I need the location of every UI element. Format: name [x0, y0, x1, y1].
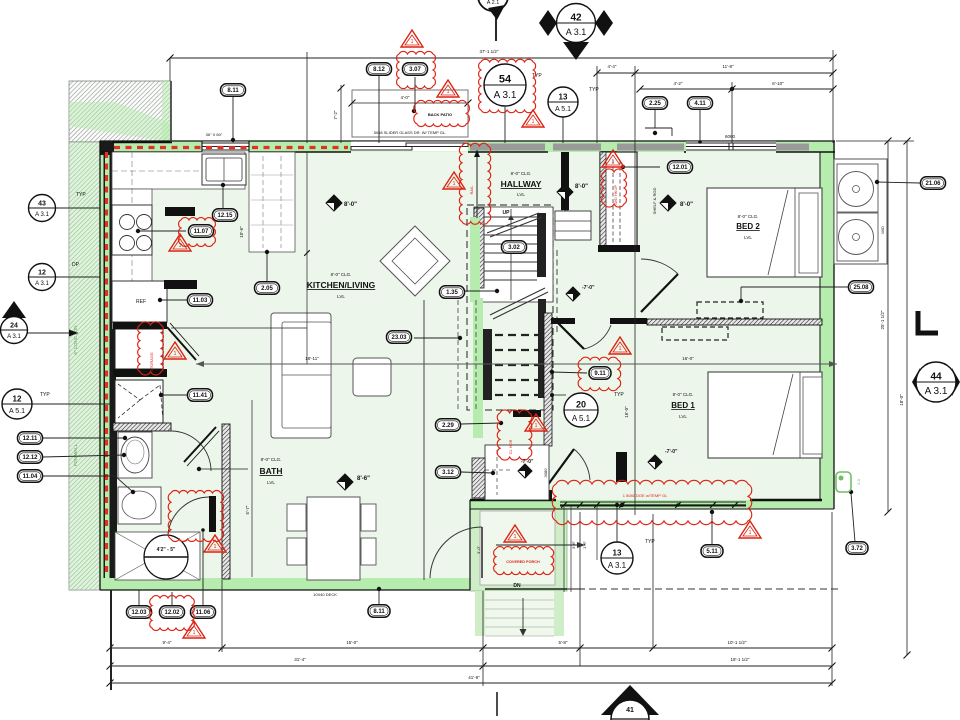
marker 43/A3.1	[55, 207, 100, 209]
svg-text:BED 1: BED 1	[671, 401, 695, 410]
svg-text:37'-1 1/2": 37'-1 1/2"	[480, 49, 499, 54]
svg-text:W/D: W/D	[880, 226, 885, 234]
pill 9.11	[552, 372, 587, 373]
svg-text:TYP: TYP	[645, 539, 655, 545]
lounge chair rotated	[380, 226, 450, 296]
svg-text:1: 1	[193, 630, 196, 636]
svg-text:3.12: 3.12	[442, 470, 454, 476]
svg-text:A 5.1: A 5.1	[9, 408, 25, 415]
svg-text:10X40 DECK: 10X40 DECK	[313, 592, 337, 597]
cloud storage	[138, 322, 164, 375]
bed2 door	[641, 274, 678, 312]
pill 8.12 / 3.07	[378, 76, 380, 143]
svg-text:A 2.1: A 2.1	[487, 0, 500, 6]
kitchen sink	[202, 154, 246, 185]
bottom-right exterior wall band	[470, 500, 834, 509]
svg-text:18'-1 1/2": 18'-1 1/2"	[731, 657, 750, 662]
svg-text:16'-0": 16'-0"	[624, 406, 629, 418]
svg-text:1: 1	[612, 159, 615, 165]
stairs lower dashed run	[470, 217, 480, 302]
svg-text:8.11: 8.11	[373, 609, 385, 615]
svg-text:11.06: 11.06	[196, 610, 211, 616]
corridor top wall	[551, 318, 575, 324]
svg-text:44: 44	[930, 372, 942, 383]
back patio slider	[351, 147, 412, 151]
kitchen window	[202, 142, 249, 144]
cloud covered porch	[494, 547, 554, 575]
svg-text:4'-4": 4'-4"	[608, 64, 617, 69]
revision delta at 533,120	[522, 110, 544, 127]
svg-text:8'-0" CLG.: 8'-0" CLG.	[261, 457, 282, 462]
cloud 12.02	[150, 596, 195, 631]
svg-text:6'-10": 6'-10"	[772, 81, 784, 86]
svg-text:8'-0" CLG.: 8'-0" CLG.	[673, 392, 694, 397]
DN dashed line	[567, 588, 838, 590]
pill 8.11 top	[232, 96, 234, 141]
cloud closet hdr	[497, 410, 532, 460]
pill 2.05	[266, 252, 268, 281]
svg-text:1: 1	[749, 530, 752, 536]
revision delta at 194,631	[183, 621, 205, 638]
porch stair sides	[475, 591, 485, 636]
bottom extension lines	[110, 590, 112, 690]
marker 42/A3.1 diamond top	[539, 10, 557, 36]
svg-text:BATH: BATH	[260, 466, 283, 476]
svg-text:1: 1	[453, 181, 456, 187]
svg-text:4'-2": 4'-2"	[674, 81, 683, 86]
pill 3.72	[851, 493, 855, 542]
pill 5.11	[711, 512, 713, 545]
porch door arc	[430, 527, 482, 578]
bath top wall	[113, 423, 171, 431]
svg-text:UP: UP	[503, 210, 511, 216]
cloud window south long	[552, 480, 752, 524]
svg-text:1: 1	[619, 346, 622, 352]
pantry counter strip	[249, 152, 295, 252]
svg-text:1: 1	[447, 89, 450, 95]
svg-text:13: 13	[559, 93, 568, 102]
top wall inner edge segments	[100, 151, 202, 153]
svg-text:2-0: 2-0	[856, 478, 861, 485]
svg-text:18'-11": 18'-11"	[305, 356, 319, 361]
cloud back patio	[414, 100, 470, 126]
svg-text:-7'-0": -7'-0"	[582, 285, 595, 291]
svg-text:8'-0" CLG.: 8'-0" CLG.	[738, 214, 759, 219]
svg-text:2.05: 2.05	[261, 286, 273, 292]
clg markers	[326, 195, 342, 211]
svg-text:A 3.1: A 3.1	[35, 212, 49, 218]
bottom dimension lines	[110, 647, 832, 649]
stairs upper run	[474, 207, 553, 302]
svg-text:TYP: TYP	[589, 87, 599, 93]
bed1 entry door	[557, 322, 584, 349]
svg-text:1: 1	[179, 243, 182, 249]
pill 3.12	[461, 472, 493, 473]
pill 12.15	[222, 185, 224, 209]
svg-text:20: 20	[576, 400, 586, 410]
dim chain in cloud	[560, 504, 746, 506]
pills bottom left	[138, 590, 140, 605]
range/stove	[112, 205, 152, 255]
svg-text:42: 42	[570, 13, 582, 24]
svg-text:RAIL: RAIL	[469, 185, 474, 195]
marker 44/A3.1 diamond right	[912, 368, 920, 396]
svg-text:STORAGE: STORAGE	[149, 352, 154, 372]
marker 12/A5.1	[30, 403, 112, 405]
svg-text:15'-0": 15'-0"	[346, 640, 358, 645]
svg-text:A 3.1: A 3.1	[925, 386, 948, 397]
svg-text:9.11: 9.11	[594, 371, 606, 377]
svg-text:13: 13	[613, 549, 622, 558]
toilet	[118, 432, 152, 478]
svg-text:31'-4": 31'-4"	[294, 657, 306, 662]
svg-text:8.12: 8.12	[373, 67, 385, 73]
pill 12.01	[623, 166, 660, 168]
svg-text:1: 1	[214, 544, 217, 550]
svg-text:23.03: 23.03	[391, 335, 407, 341]
closet dashed shelves	[697, 302, 763, 318]
porch leader lines	[496, 544, 585, 546]
svg-text:12.15: 12.15	[217, 213, 233, 219]
pill 1.35	[465, 290, 497, 292]
svg-text:A 5.1: A 5.1	[572, 414, 591, 423]
svg-text:TYP: TYP	[76, 192, 86, 198]
green wash under hatch	[69, 102, 171, 142]
svg-text:3.07: 3.07	[409, 67, 421, 73]
svg-text:DP: DP	[72, 262, 80, 268]
svg-text:1: 1	[514, 534, 517, 540]
dining table	[307, 497, 360, 580]
concrete footing green wash top-left	[69, 81, 171, 142]
svg-text:6060: 6060	[725, 134, 736, 139]
right dimension lines	[836, 140, 914, 142]
svg-text:12.01: 12.01	[672, 165, 688, 171]
revision delta at 215,545	[204, 535, 226, 552]
svg-text:A 5.1: A 5.1	[555, 106, 571, 113]
back patio outline	[352, 90, 468, 137]
top extension lines	[169, 58, 171, 81]
pill 23.03	[414, 337, 460, 339]
pill 2.29	[461, 423, 501, 424]
svg-text:8'-0": 8'-0"	[575, 184, 588, 190]
top exterior wall band	[100, 141, 835, 152]
svg-text:8'-6": 8'-6"	[357, 476, 370, 482]
svg-text:1.35: 1.35	[446, 290, 458, 296]
storage closet	[115, 329, 163, 369]
hall wall stub	[561, 152, 569, 210]
corridor bottom door	[547, 449, 574, 486]
svg-text:1: 1	[535, 423, 538, 429]
stair east wall	[537, 213, 546, 277]
stair break line	[487, 213, 539, 233]
bath entry door leaf	[209, 496, 216, 532]
svg-text:4.11: 4.11	[694, 101, 706, 107]
svg-text:BED 2: BED 2	[736, 222, 760, 231]
svg-text:36" X 60": 36" X 60"	[206, 132, 223, 137]
svg-text:12: 12	[13, 395, 22, 404]
shower	[115, 532, 200, 580]
svg-text:A 3.1: A 3.1	[35, 281, 49, 287]
revision delta at 515,535	[504, 525, 526, 542]
svg-text:REF: REF	[136, 299, 146, 305]
svg-text:LVL: LVL	[337, 294, 345, 299]
kitchen/living interior fill	[112, 152, 470, 578]
svg-text:3'-0": 3'-0"	[476, 545, 481, 554]
revision delta at 175,352	[164, 342, 186, 359]
svg-text:SHELF & ROD: SHELF & ROD	[652, 188, 657, 215]
svg-text:DN: DN	[513, 583, 521, 589]
svg-text:11.07: 11.07	[194, 229, 209, 235]
header bars	[470, 144, 545, 151]
svg-text:KITCHEN/LIVING: KITCHEN/LIVING	[307, 280, 376, 290]
svg-text:9'-4": 9'-4"	[163, 640, 172, 645]
svg-text:W/D HKUP: W/D HKUP	[613, 185, 618, 205]
cloud bath door	[168, 491, 223, 542]
bed 2	[707, 188, 822, 277]
hallway dashed line	[556, 250, 558, 332]
svg-text:6" CONC FDN: 6" CONC FDN	[73, 325, 78, 354]
svg-text:4'-0": 4'-0"	[401, 95, 410, 100]
marker 13/A5.1	[562, 117, 564, 143]
corridor west wall	[544, 313, 552, 446]
svg-text:5'-8": 5'-8"	[559, 640, 568, 645]
linen shelves	[555, 211, 591, 240]
side table	[353, 358, 391, 396]
svg-text:12: 12	[38, 270, 46, 277]
svg-text:BACK PATIO: BACK PATIO	[428, 112, 452, 117]
svg-text:A 3.1: A 3.1	[7, 334, 21, 340]
revision delta at 412,40	[401, 30, 423, 47]
under-stair storage	[485, 445, 549, 500]
svg-text:3080: 3080	[543, 468, 548, 478]
porch steps	[485, 599, 554, 601]
hallway/bedrooms interior fill	[470, 152, 820, 502]
wall outlines	[100, 140, 835, 142]
svg-text:21.06: 21.06	[925, 181, 941, 187]
pill 3.02	[502, 241, 527, 254]
svg-text:A 3.1: A 3.1	[494, 90, 517, 101]
green fixture icon	[836, 472, 851, 492]
bed1/bed2 wall	[647, 319, 822, 325]
pill 2.25 / 4.11	[654, 110, 656, 128]
mid horizontal reference line	[196, 363, 837, 365]
svg-text:LVL: LVL	[517, 192, 525, 197]
marker 20/A5.1	[552, 394, 566, 396]
pill 8.11 bottom	[378, 589, 380, 605]
kitchen wall stubs	[165, 207, 195, 216]
bath door arc	[171, 431, 211, 471]
svg-text:TYP: TYP	[40, 392, 50, 398]
svg-text:5'-7": 5'-7"	[245, 505, 250, 514]
angled wall at storage	[167, 327, 196, 360]
right exterior wall band	[820, 141, 834, 509]
revision delta at 750,531	[739, 521, 761, 538]
marker 54/A3.1	[504, 107, 506, 143]
left exterior wall band	[100, 141, 112, 590]
svg-text:11.41: 11.41	[193, 393, 208, 399]
window white backings	[202, 142, 249, 152]
svg-text:11.03: 11.03	[193, 298, 208, 304]
L column mark right	[918, 311, 938, 333]
stair dashed enclosure	[467, 205, 553, 410]
svg-text:CL HDR: CL HDR	[508, 440, 513, 455]
bath east wall	[222, 424, 230, 579]
svg-text:54: 54	[499, 74, 512, 86]
svg-text:1: 1	[532, 119, 535, 125]
marker 13/A3.1	[616, 505, 618, 542]
revision delta at 180,244	[169, 234, 191, 251]
svg-text:1: 1	[174, 351, 177, 357]
top dimension lines	[170, 57, 833, 59]
refrigerator	[112, 281, 167, 322]
sofa	[271, 313, 331, 438]
pill 11.41	[161, 394, 187, 396]
svg-text:16'-0": 16'-0"	[682, 356, 694, 361]
svg-text:8.11: 8.11	[227, 88, 239, 94]
svg-text:12.12: 12.12	[22, 455, 38, 461]
angled bath wall	[184, 427, 216, 462]
cloud stair rail	[459, 143, 490, 224]
bed2 window	[686, 142, 776, 144]
svg-text:3.72: 3.72	[851, 546, 863, 552]
revision delta at 454,182	[443, 172, 465, 189]
svg-text:8'-0" CLG.: 8'-0" CLG.	[331, 272, 352, 277]
vanity sink	[118, 487, 161, 524]
svg-text:10'-6": 10'-6"	[239, 226, 244, 238]
svg-text:TYP: TYP	[614, 392, 624, 398]
revision delta at 620,347	[609, 337, 631, 354]
svg-text:25'-1 1/2": 25'-1 1/2"	[880, 310, 885, 329]
svg-text:12.02: 12.02	[164, 610, 180, 616]
svg-text:8'-0" CLG.: 8'-0" CLG.	[511, 171, 532, 176]
svg-text:2.25: 2.25	[649, 101, 661, 107]
svg-text:41'-9": 41'-9"	[468, 675, 480, 680]
svg-text:5.11: 5.11	[706, 549, 718, 555]
bed1 south window	[560, 501, 746, 503]
cloud W/D hkup	[602, 169, 627, 207]
revision delta at 613,160	[602, 150, 624, 167]
cloud 3.07	[397, 51, 436, 88]
svg-text:8'-0": 8'-0"	[344, 202, 357, 208]
svg-text:LVL: LVL	[744, 235, 752, 240]
header bar below stairs	[513, 410, 541, 417]
svg-text:FDN WALL: FDN WALL	[73, 443, 78, 466]
covered porch fill	[470, 502, 567, 591]
bed 1	[708, 372, 822, 458]
svg-text:18'-0": 18'-0"	[899, 394, 904, 406]
pill 25.08	[741, 286, 848, 288]
svg-text:12.11: 12.11	[23, 436, 38, 442]
svg-text:4'2" - 5": 4'2" - 5"	[157, 547, 176, 553]
stair west wall	[474, 208, 484, 288]
svg-text:HALLWAY: HALLWAY	[501, 179, 542, 189]
bottom-left exterior wall band	[100, 578, 470, 590]
revision delta at 448,90	[437, 80, 459, 97]
pill 21.06	[877, 182, 920, 183]
svg-text:43: 43	[38, 201, 46, 208]
svg-text:11'-8": 11'-8"	[722, 64, 734, 69]
svg-text:LVL: LVL	[267, 480, 275, 485]
bottom section line	[496, 692, 498, 716]
cloud 54 marker	[479, 59, 536, 112]
svg-text:A 3.1: A 3.1	[608, 561, 627, 570]
pill 12.11 / 12.12 / 11.04 left	[43, 437, 125, 439]
lower closet with bifold	[115, 380, 163, 423]
pill 11.07	[138, 230, 186, 232]
svg-text:3.02: 3.02	[508, 245, 520, 251]
living/porch wall	[423, 300, 425, 580]
svg-text:5068 SLIDER GLASS DR. W/ TEMP: 5068 SLIDER GLASS DR. W/ TEMP GL.	[374, 130, 447, 135]
svg-text:11.04: 11.04	[23, 474, 38, 480]
svg-text:24: 24	[10, 323, 18, 330]
pill 11.03	[160, 299, 188, 301]
svg-text:A 3.1: A 3.1	[566, 27, 587, 37]
svg-text:12.03: 12.03	[131, 610, 147, 616]
insulation dashed line	[114, 146, 348, 149]
washer/dryer stack	[834, 159, 887, 264]
svg-text:2.29: 2.29	[442, 423, 454, 429]
marker A2.1 top	[478, 0, 508, 11]
kitchen counters	[112, 152, 245, 189]
cloud 11.07	[179, 218, 216, 247]
W/D closet	[600, 152, 637, 251]
svg-text:25.08: 25.08	[853, 285, 869, 291]
marker 41 bottom	[601, 685, 659, 715]
svg-text:LVL: LVL	[679, 414, 687, 419]
svg-text:7'-2": 7'-2"	[333, 110, 338, 119]
revision delta at 536,424	[525, 414, 547, 431]
svg-text:41: 41	[626, 707, 634, 714]
marker 24/A3.1 diamond	[27, 332, 78, 334]
cloud 9.11	[578, 357, 621, 390]
svg-text:COVERED PORCH: COVERED PORCH	[506, 560, 540, 564]
svg-text:-7'-0": -7'-0"	[665, 449, 678, 455]
svg-text:1 5080 DOE w/TEMP GL: 1 5080 DOE w/TEMP GL	[623, 493, 668, 498]
wing wall bed1	[616, 452, 627, 482]
svg-text:8'-0": 8'-0"	[680, 202, 693, 208]
svg-text:10'-1 1/2": 10'-1 1/2"	[728, 640, 747, 645]
marker 12/A3.1	[55, 276, 100, 278]
misc small dims	[171, 327, 307, 329]
svg-text:1: 1	[411, 39, 414, 45]
